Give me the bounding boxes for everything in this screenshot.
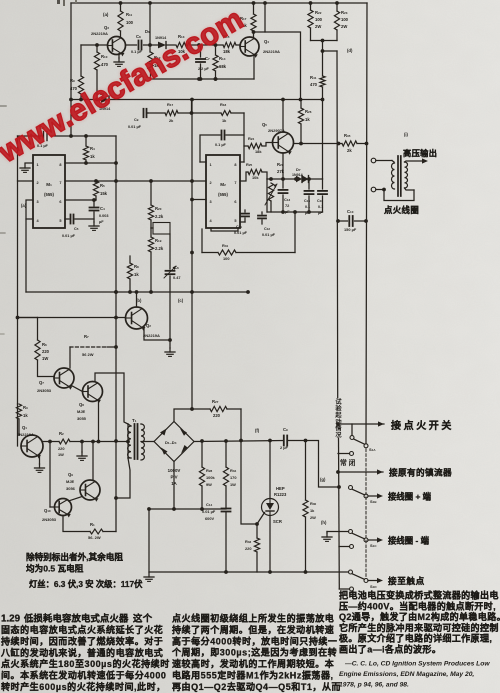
- svg-text:Q7: Q7: [39, 380, 44, 385]
- resistor R20 2.2k: [148, 181, 163, 228]
- svg-text:µF: µF: [99, 220, 104, 224]
- transistor Q2 2N2219A: [126, 307, 161, 338]
- resistor R33 220: [245, 524, 260, 572]
- label test-start vertical text: [334, 398, 342, 439]
- ignition coil terminal 1: [371, 158, 392, 163]
- svg-text:Q1: Q1: [22, 425, 27, 430]
- resistor R34 170 1W: [223, 441, 236, 508]
- svg-text:R1: R1: [90, 522, 95, 527]
- node f label: [255, 428, 260, 433]
- switch S1A contact: [364, 444, 376, 452]
- resistor R19 2.2k: [148, 228, 163, 294]
- svg-text:10k: 10k: [252, 175, 259, 180]
- capacitor C16 0.1uF: [317, 179, 327, 215]
- wire M2 pin3 stub: [190, 198, 206, 202]
- svg-text:2N3053: 2N3053: [42, 517, 57, 522]
- node a label: [103, 12, 109, 17]
- svg-text:R22: R22: [315, 10, 322, 15]
- note resistors line1: [26, 551, 123, 562]
- capacitor C10 150uF: [336, 209, 368, 232]
- svg-text:68k: 68k: [219, 64, 227, 69]
- svg-text:转时产生600µs的火花持续时间,此时，: 转时产生600µs的火花持续时间,此时，: [1, 681, 166, 692]
- wire mid column x322: [322, 100, 324, 180]
- wire M1 pin8 line: [65, 161, 118, 165]
- wire Q8 collector line: [95, 373, 128, 424]
- resistor R25 10k: [240, 162, 267, 181]
- svg-text:R25: R25: [246, 162, 252, 167]
- svg-text:R11: R11: [126, 12, 133, 17]
- svg-text:R5: R5: [100, 183, 105, 188]
- resistor R35 2k: [342, 133, 368, 153]
- svg-text:2N2219A: 2N2219A: [91, 31, 108, 36]
- svg-text:3: 3: [210, 200, 212, 204]
- wire Q2 emitter: [144, 327, 170, 341]
- wire main rail x116: [114, 136, 118, 532]
- svg-text:R2: R2: [59, 431, 64, 436]
- svg-text:(h): (h): [321, 520, 327, 525]
- svg-text:低损耗电容放电式点火器: 低损耗电容放电式点火器: [23, 613, 129, 624]
- wire Q9 collector: [91, 440, 95, 480]
- svg-text:7: 7: [59, 181, 61, 185]
- svg-text:220: 220: [245, 546, 252, 551]
- svg-text:6: 6: [234, 200, 236, 204]
- wire feedback line y79: [151, 77, 255, 81]
- node c label: [178, 298, 184, 303]
- wire rail B x366: [366, 3, 367, 443]
- diode D7 1N914 pair: [292, 167, 309, 182]
- wire SCR gate: [255, 513, 264, 526]
- svg-text:470: 470: [70, 86, 78, 91]
- svg-text:R24: R24: [248, 136, 254, 141]
- svg-text:R41: R41: [310, 75, 317, 80]
- svg-text:D7: D7: [296, 167, 301, 172]
- svg-text:HEP: HEP: [276, 486, 285, 491]
- wire C8 output node: [148, 3, 152, 47]
- svg-text:0.1 µF: 0.1 µF: [215, 143, 227, 147]
- ground h node: [321, 520, 332, 541]
- wire SCR cathode: [268, 516, 272, 574]
- breaker points box: [151, 223, 170, 235]
- ground Q1 emitter: [35, 455, 45, 472]
- svg-text:电路用555定时器M1作为2kHz振荡器,: 电路用555定时器M1作为2kHz振荡器,: [172, 670, 334, 681]
- paragraph column 1: [0, 613, 170, 693]
- wire cap bank top y179: [267, 177, 323, 181]
- svg-text:0.003: 0.003: [99, 214, 109, 218]
- capacitor C8 0.1uF: [126, 34, 150, 54]
- wire gate feed: [241, 441, 257, 525]
- svg-text:170: 170: [230, 475, 237, 480]
- svg-text:100: 100: [341, 17, 349, 22]
- resistor R9 470: [70, 45, 84, 101]
- svg-text:M2: M2: [220, 182, 226, 187]
- resistor R10 470: [94, 45, 108, 101]
- svg-text:C12: C12: [264, 227, 270, 231]
- svg-text:470: 470: [101, 62, 109, 67]
- bridge rating label: [168, 468, 181, 486]
- svg-text:R29: R29: [277, 162, 284, 167]
- svg-text:个周期，即300µs;这是因为考虑到在转: 个周期，即300µs;这是因为考虑到在转: [171, 647, 337, 658]
- wire Q4 emitter drop: [253, 55, 255, 80]
- resistor R8 1k: [127, 256, 139, 294]
- transistor Q4 2N2219A: [240, 37, 280, 58]
- svg-text:1k: 1k: [305, 117, 310, 122]
- svg-text:R9: R9: [70, 78, 75, 83]
- svg-text:把电池电压变换成桥式整流器的输出电: 把电池电压变换成桥式整流器的输出电: [339, 590, 499, 601]
- ignition coil label: [384, 205, 419, 215]
- svg-text:C5: C5: [74, 227, 79, 231]
- svg-text:S1D: S1D: [370, 584, 377, 589]
- ignition coil T2: [392, 156, 429, 196]
- svg-text:3: 3: [37, 200, 39, 204]
- svg-text:D1–D4: D1–D4: [165, 440, 177, 445]
- wire Q8 emitter: [97, 400, 101, 444]
- resistor R13 10k: [176, 34, 201, 54]
- capacitor C9b 0.01uF: [128, 109, 148, 129]
- wire R22 R23 bracket: [311, 39, 338, 53]
- svg-text:2W: 2W: [315, 24, 321, 29]
- resistor R28 100k 9W: [199, 441, 215, 511]
- svg-text:1: 1: [37, 163, 39, 167]
- svg-text:灯丝：6.3 伏,3 安 次级：117伏: 灯丝：6.3 伏,3 安 次级：117伏: [29, 579, 143, 589]
- paragraph column 3: [339, 590, 500, 655]
- svg-text:1W: 1W: [58, 452, 64, 457]
- capacitor C7 2.2uF: [196, 45, 210, 81]
- resistor R3 1k: [16, 404, 28, 435]
- svg-text:R1223: R1223: [274, 492, 287, 497]
- svg-text:0.01 µF: 0.01 µF: [262, 233, 276, 237]
- wire Q10 base line: [48, 440, 54, 507]
- svg-text:C9: C9: [134, 118, 139, 122]
- resistor R12 1k: [148, 45, 161, 79]
- svg-text:0.47: 0.47: [173, 275, 181, 280]
- svg-text:220: 220: [58, 446, 65, 451]
- transistor Q1 2N2219A: [17, 425, 43, 459]
- margin tick marks: [0, 106, 6, 334]
- svg-text:9W: 9W: [206, 482, 212, 487]
- svg-text:600V: 600V: [205, 516, 214, 521]
- svg-text:6: 6: [59, 200, 61, 204]
- wire left supply drop: [69, 3, 73, 138]
- svg-text:它所产生的脉冲用来驱动可控硅的控制: 它所产生的脉冲用来驱动可控硅的控制: [339, 622, 499, 633]
- svg-text:R26: R26: [305, 109, 312, 114]
- wire Q5 collector: [281, 153, 285, 181]
- svg-text:持续了两个周期。但是，在发动机转速: 持续了两个周期。但是，在发动机转速: [172, 624, 334, 635]
- svg-text:2.2 µF: 2.2 µF: [198, 67, 210, 71]
- svg-text:MJE: MJE: [77, 409, 86, 414]
- wire Q9 emitter to Q10: [69, 497, 83, 502]
- svg-text:C7: C7: [205, 56, 210, 61]
- wire R27 down to HV line: [240, 409, 242, 441]
- svg-text:接点火开关: 接点火开关: [391, 419, 454, 432]
- svg-text:(f): (f): [255, 428, 260, 433]
- wire top supply rail: [71, 1, 367, 5]
- svg-text:0.1: 0.1: [305, 205, 310, 209]
- svg-text:(a): (a): [21, 203, 27, 208]
- wire left drop x149 with ground: [144, 509, 154, 581]
- wire primary bottom return: [116, 458, 130, 498]
- svg-text:速较高时，发动机的工作周期较短。本: 速较高时，发动机的工作周期较短。本: [172, 658, 335, 669]
- svg-text:8: 8: [59, 163, 61, 167]
- svg-text:100: 100: [315, 17, 323, 22]
- capacitor C6 0.47 variable: [164, 234, 181, 348]
- bridge rectifier D1-D4: [154, 422, 194, 462]
- svg-text:2W: 2W: [310, 515, 316, 520]
- resistor R23 100 2W: [334, 3, 348, 41]
- svg-text:2.2k: 2.2k: [155, 214, 164, 219]
- svg-text:接原有的镇流器: 接原有的镇流器: [389, 467, 452, 478]
- paragraph column 2: [171, 613, 341, 692]
- svg-text:S1C: S1C: [370, 543, 377, 548]
- svg-text:Q8: Q8: [79, 402, 84, 407]
- diode D6 1N914: [145, 29, 175, 48]
- svg-text:Q4: Q4: [264, 39, 269, 44]
- svg-text:(g): (g): [320, 477, 326, 482]
- svg-text:—C. C. Lo, CD Ignition System: —C. C. Lo, CD Ignition System Produces L…: [344, 661, 490, 668]
- svg-text:220: 220: [42, 349, 50, 354]
- transistor Q7 2N3053: [37, 368, 74, 393]
- svg-text:固态的电容放电式点火系统延长了火花: 固态的电容放电式点火系统延长了火花: [1, 624, 163, 635]
- svg-text:极。原文介绍了电路的详细工作原理,: 极。原文介绍了电路的详细工作原理,: [339, 633, 492, 644]
- svg-text:C11: C11: [236, 225, 242, 229]
- svg-text:1: 1: [210, 163, 212, 167]
- svg-text:点火线圈: 点火线圈: [384, 205, 419, 215]
- svg-text:0.01 µF: 0.01 µF: [62, 234, 76, 238]
- resistor R4 1k: [83, 136, 95, 165]
- ground under Q3 emitter: [114, 54, 124, 67]
- wire drop to timing line: [190, 100, 194, 115]
- svg-text:R31: R31: [222, 243, 228, 248]
- svg-text:SCR: SCR: [273, 519, 282, 524]
- switch S1B coil plus: [349, 486, 432, 505]
- svg-text:1978, p 94, 96, and 98.: 1978, p 94, 96, and 98.: [339, 682, 409, 689]
- svg-text:况: 况: [335, 431, 342, 439]
- resistor R5 15k: [93, 181, 107, 200]
- transistor Q9 MJE3056: [66, 472, 100, 502]
- capacitor C11 0.01uF: [234, 210, 249, 235]
- wire cap bank bottom y212: [267, 179, 323, 214]
- svg-text:R10: R10: [101, 54, 108, 59]
- wire bridge top to R27: [174, 407, 210, 421]
- HV output label: [403, 148, 437, 158]
- svg-text:Q10: Q10: [44, 508, 51, 513]
- capacitor C14 0.01uF 600V: [202, 502, 231, 574]
- M1 pin1 ground: [20, 163, 33, 172]
- wire bottom rail y572: [149, 571, 349, 573]
- svg-text:2.2k: 2.2k: [155, 246, 164, 251]
- resistor R22 100 2W: [308, 3, 323, 41]
- top edge smudges: [57, 0, 77, 6]
- resistor R17 1k vertical: [240, 3, 256, 38]
- svg-text:27k: 27k: [277, 169, 285, 174]
- wire collector box: [252, 3, 301, 100]
- svg-text:常 闭: 常 闭: [340, 458, 356, 467]
- svg-text:0.01 µF: 0.01 µF: [128, 125, 142, 129]
- M1 pin3 wire down: [26, 200, 33, 292]
- svg-text:再由Q1—Q2去驱动Q4—Q5和T1，从而: 再由Q1—Q2去驱动Q4—Q5和T1，从而: [172, 681, 341, 692]
- svg-text:R27: R27: [212, 399, 219, 404]
- switch S1C coil minus: [327, 530, 430, 549]
- watermark elecfans: [0, 1, 249, 169]
- wire M1 to M2 line y181: [96, 179, 206, 183]
- wire center tap to transformer: [116, 440, 130, 444]
- wire M1 pin7 line: [65, 179, 98, 183]
- resistor R30 1k 2W: [303, 441, 317, 574]
- svg-text:1k: 1k: [90, 154, 95, 159]
- resistor R14 68k: [213, 43, 227, 81]
- resistor R31 100: [218, 243, 236, 261]
- svg-text:R20: R20: [155, 206, 162, 211]
- wire Q7 emitter to Q8 base: [72, 386, 83, 392]
- resistor R15 18k: [199, 34, 241, 54]
- svg-text:56. 2W: 56. 2W: [88, 535, 101, 540]
- svg-text:接至触点: 接至触点: [388, 575, 425, 586]
- transistor Q5 2N2907A: [262, 122, 294, 155]
- switch branch to ballast: [336, 467, 452, 478]
- svg-text:R19: R19: [155, 238, 162, 243]
- svg-text:C10: C10: [347, 209, 354, 214]
- SCR Q11 HEP R1223: [262, 486, 288, 524]
- svg-text:Engine Emissions, EDN Magazine: Engine Emissions, EDN Magazine, May 20,: [339, 671, 474, 678]
- svg-text:R8: R8: [134, 264, 139, 269]
- svg-text:高于每分4000转时，放电时间只持续一: 高于每分4000转时，放电时间只持续一: [172, 635, 337, 646]
- capacitor C15 0.1uF: [304, 179, 314, 215]
- svg-text:间。本系统在发动机转速低于每分4000: 间。本系统在发动机转速低于每分4000: [1, 670, 166, 681]
- node e label M1: [21, 203, 27, 208]
- ground C6: [165, 348, 175, 356]
- IC U2 555 timer M2: [206, 155, 240, 228]
- capacitor C3 0.1uF: [37, 126, 51, 148]
- resistor R17 2k: [165, 102, 178, 123]
- wire HV output line y441: [194, 439, 284, 443]
- transistor Q8 MJE3055: [77, 382, 103, 422]
- note resistors line2: [26, 563, 84, 574]
- svg-text:Q5: Q5: [262, 122, 267, 127]
- capacitor C4 0.003uF: [89, 200, 109, 230]
- svg-text:R17: R17: [167, 102, 173, 107]
- ignition coil bottom loop: [384, 190, 414, 201]
- svg-text:2k: 2k: [347, 148, 352, 153]
- wire left rail x17: [16, 136, 20, 446]
- capacitor C12 0.01uF: [258, 212, 276, 237]
- svg-text:C14: C14: [206, 502, 212, 507]
- wire M2 bottom bracket: [202, 228, 238, 253]
- capacitor C13 72uF: [279, 179, 291, 214]
- svg-text:R18: R18: [220, 102, 226, 107]
- transistor Q3 2N2219A: [91, 25, 126, 56]
- resistor R6 220 1W: [18, 318, 55, 377]
- resistor R18 1k: [220, 102, 231, 123]
- wire C9 to rail: [288, 439, 341, 489]
- node i label: [404, 132, 409, 137]
- resistor R2 220 1W: [58, 431, 116, 457]
- svg-text:(a): (a): [103, 12, 109, 17]
- svg-text:均为0.5 瓦电阻: 均为0.5 瓦电阻: [26, 563, 84, 574]
- svg-text:2: 2: [37, 181, 39, 185]
- svg-text:这个: 这个: [133, 613, 153, 624]
- svg-text:R33: R33: [245, 539, 251, 544]
- node b label: [136, 298, 142, 303]
- potentiometer R29 27k: [265, 162, 285, 212]
- node d label: [347, 48, 353, 53]
- wire Q3 base node: [81, 43, 108, 47]
- svg-text:0.01 µF: 0.01 µF: [202, 509, 216, 514]
- wire Q10 emitter: [63, 516, 90, 532]
- wire R35 output line: [294, 142, 342, 146]
- svg-text:(555): (555): [44, 192, 54, 197]
- svg-text:S1B: S1B: [370, 499, 377, 504]
- wire M1 top line y136: [18, 134, 117, 138]
- svg-text:(i): (i): [404, 132, 409, 137]
- svg-text:18k: 18k: [223, 49, 231, 54]
- svg-text:C16: C16: [317, 199, 323, 203]
- svg-text:接线圈 + 端: 接线圈 + 端: [388, 492, 432, 502]
- normally closed contact: [338, 452, 356, 468]
- svg-text:1N914: 1N914: [292, 173, 303, 177]
- svg-text:C8: C8: [136, 34, 141, 39]
- svg-text:C15: C15: [304, 199, 310, 203]
- svg-text:(d): (d): [347, 48, 353, 53]
- svg-text:7: 7: [234, 181, 236, 185]
- switch link dashed line: [365, 449, 367, 578]
- note transformer: [29, 579, 143, 589]
- capacitor C5 0.01uF: [62, 215, 94, 239]
- svg-text:点火系统产生180至300µs的火花持续时: 点火系统产生180至300µs的火花持续时: [1, 658, 170, 669]
- resistor R11 100: [118, 3, 134, 37]
- svg-text:R6: R6: [42, 342, 47, 347]
- transformer T1: [128, 418, 145, 460]
- svg-text:C13: C13: [284, 197, 290, 202]
- wire Q1 collector line: [43, 441, 59, 443]
- svg-text:5: 5: [234, 219, 236, 223]
- citation: [339, 661, 490, 689]
- wire Q2 base line y317: [18, 317, 126, 319]
- svg-text:2N2219A: 2N2219A: [143, 333, 160, 338]
- svg-text:2W: 2W: [341, 24, 347, 29]
- svg-text:八缸的发动机来说，普通的电容放电式: 八缸的发动机来说，普通的电容放电式: [0, 647, 163, 658]
- svg-text:T1: T1: [132, 418, 137, 423]
- wire Q5 emitter to y99: [282, 100, 284, 133]
- svg-text:D6: D6: [145, 29, 150, 34]
- wire SCR anode: [269, 441, 271, 499]
- wire secondary to bridge: [141, 441, 154, 443]
- svg-text:R28: R28: [206, 468, 212, 473]
- resistor R7 56 2W dashed: [70, 334, 116, 368]
- svg-text:点火线圈初级绕组上所发生的振荡放电: 点火线圈初级绕组上所发生的振荡放电: [172, 613, 334, 624]
- svg-text:MJE: MJE: [66, 479, 75, 484]
- svg-text:Q2: Q2: [146, 323, 151, 328]
- svg-text:Q9: Q9: [68, 472, 73, 477]
- wire node line y99: [71, 98, 324, 102]
- svg-text:1.29: 1.29: [1, 614, 21, 625]
- resistor R27 220: [210, 399, 241, 418]
- svg-text:(c): (c): [178, 298, 184, 303]
- svg-text:高压输出: 高压输出: [403, 148, 437, 158]
- M1 pin2 stub: [18, 180, 34, 182]
- wire long rail x192: [190, 100, 194, 410]
- svg-text:56 2W: 56 2W: [82, 352, 94, 357]
- svg-text:1W: 1W: [230, 482, 236, 487]
- wire Q2 collector: [135, 290, 139, 307]
- switch S1D points: [349, 570, 425, 589]
- svg-text:R7: R7: [84, 334, 89, 339]
- resistor R41 470: [310, 51, 325, 100]
- svg-text:M1: M1: [46, 182, 52, 187]
- capacitor C9 2uF: [280, 427, 288, 450]
- ground center tap line: [77, 440, 87, 461]
- svg-text:S1A: S1A: [369, 447, 376, 452]
- wire rail A x339: [337, 51, 339, 589]
- svg-text:100: 100: [126, 20, 134, 25]
